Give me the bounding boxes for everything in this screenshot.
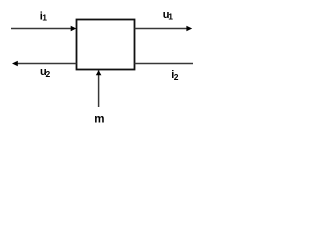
arrowhead u1 (pointing right)	[186, 26, 192, 32]
wire i2	[135, 63, 194, 65]
svg-text:m: m	[94, 113, 104, 125]
arrowhead u2 (pointing left)	[12, 61, 18, 67]
svg-text:1: 1	[42, 12, 47, 22]
svg-text:2: 2	[46, 69, 51, 79]
svg-text:1: 1	[168, 12, 173, 22]
arrowhead i1 (into left side of box)	[71, 26, 77, 32]
wire u2	[17, 63, 77, 65]
svg-text:2: 2	[174, 72, 179, 82]
wire m	[98, 71, 100, 108]
arrowhead m (pointing up into bottom of box)	[96, 70, 102, 75]
wire u1	[135, 28, 188, 30]
wire i1	[11, 28, 72, 30]
block (two-port box)	[77, 20, 135, 70]
